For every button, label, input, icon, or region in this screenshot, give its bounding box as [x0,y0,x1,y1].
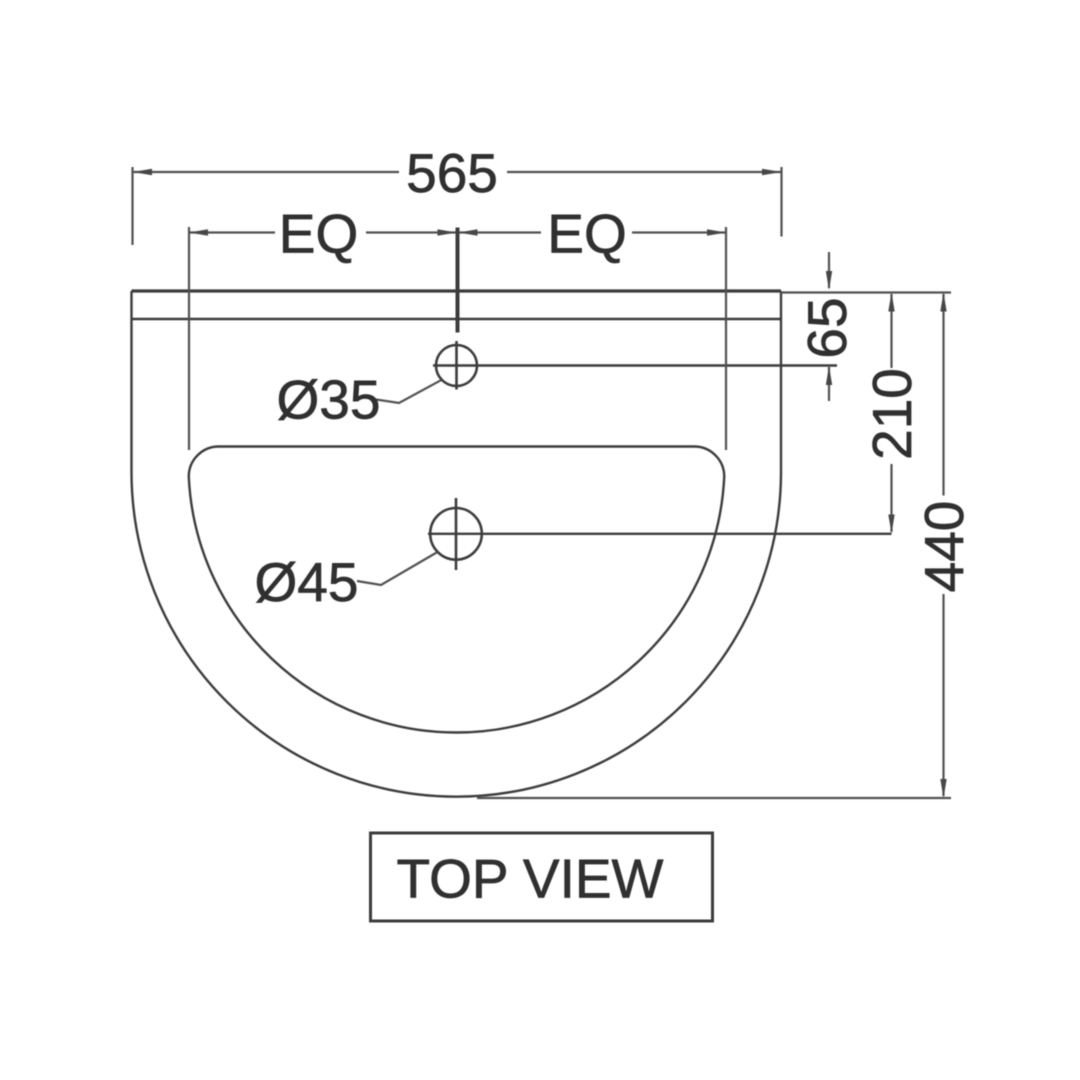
svg-text:Ø35: Ø35 [277,369,381,431]
svg-text:440: 440 [913,501,975,593]
svg-text:65: 65 [796,297,858,358]
svg-text:TOP VIEW: TOP VIEW [397,848,664,910]
svg-text:Ø45: Ø45 [255,551,359,613]
svg-text:210: 210 [861,368,923,460]
svg-text:EQ: EQ [547,203,626,265]
svg-text:EQ: EQ [279,203,358,265]
svg-text:565: 565 [406,142,498,204]
